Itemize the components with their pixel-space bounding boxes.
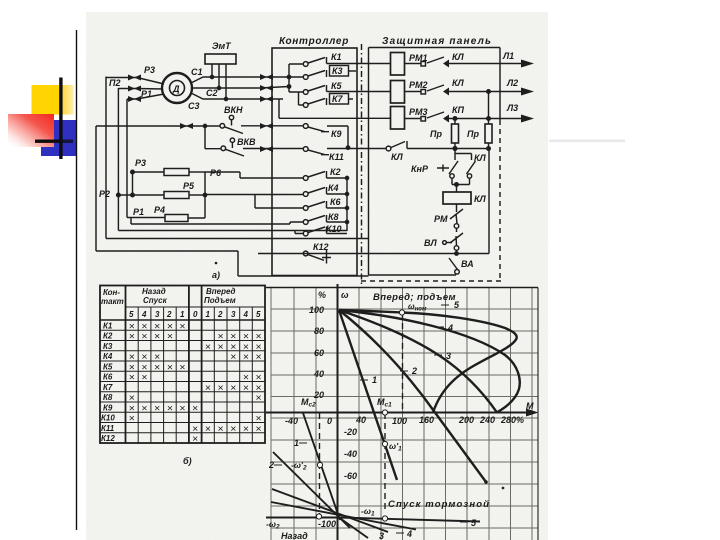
contact square RM2	[421, 90, 426, 95]
wire RM3 out / line L3	[405, 112, 523, 119]
point circle omega1prime	[382, 441, 387, 446]
wire K7 from bus	[299, 104, 304, 106]
svg-text:Назад: Назад	[142, 287, 166, 296]
svg-text:3: 3	[231, 310, 236, 319]
tick 5	[441, 304, 449, 306]
graph grid verticals	[271, 288, 532, 540]
svg-text:0: 0	[193, 310, 198, 319]
svg-text:Вперед: Вперед	[206, 287, 236, 296]
svg-text:×: ×	[141, 403, 147, 415]
decor black horizontal bar	[35, 140, 73, 143]
svg-text:КЛ: КЛ	[391, 152, 404, 162]
join wire	[452, 184, 470, 186]
svg-text:80: 80	[314, 326, 324, 336]
contact VL	[450, 229, 463, 244]
svg-text:-60: -60	[344, 471, 357, 481]
rail vertical x96	[95, 126, 97, 251]
panel right border	[499, 48, 501, 121]
coil KL box	[456, 185, 458, 193]
node L2 fuse tap	[487, 90, 491, 94]
wire VKN to controller	[241, 125, 303, 127]
svg-text:×: ×	[154, 331, 160, 343]
dash-dot divider	[361, 44, 363, 285]
line arrow L1	[521, 60, 534, 68]
svg-text:×: ×	[230, 423, 236, 435]
svg-text:Подъем: Подъем	[204, 296, 236, 305]
svg-text:20: 20	[313, 390, 324, 400]
motor inner circle	[170, 81, 185, 96]
svg-text:К7: К7	[332, 94, 344, 104]
label box K3	[330, 66, 349, 77]
contact square RM3	[421, 117, 426, 122]
bus junction dots	[287, 75, 290, 78]
bottom wire to VA	[369, 274, 457, 276]
collector bus K2-K10	[346, 178, 348, 231]
rail y251 bottom	[96, 250, 238, 252]
svg-text:К4: К4	[103, 352, 113, 361]
svg-text:К3: К3	[103, 342, 113, 351]
svg-text:Спуск: Спуск	[143, 296, 168, 305]
M axis	[266, 412, 533, 414]
button KnR bar	[437, 165, 449, 172]
wire motor left lower	[127, 94, 164, 99]
motor M (Д) outer circle	[162, 73, 192, 103]
svg-text:×: ×	[141, 372, 147, 384]
svg-text:×: ×	[192, 403, 198, 415]
svg-text:КП: КП	[452, 105, 465, 115]
wire C3 phase	[191, 93, 283, 99]
node VKV branch dot	[203, 124, 206, 127]
connector arrows P3/P1	[128, 75, 141, 103]
rail step down	[238, 251, 369, 276]
svg-text:4: 4	[447, 323, 453, 333]
svg-text:Р3: Р3	[144, 65, 155, 75]
svg-text:Пр: Пр	[467, 129, 479, 139]
faint scan artifact line	[549, 140, 625, 143]
point circle Mc1 axis	[382, 410, 387, 415]
svg-text:ВА: ВА	[461, 259, 474, 269]
svg-text:×: ×	[256, 392, 262, 404]
lower fan extra line	[339, 518, 368, 539]
svg-text:К9: К9	[331, 129, 342, 139]
stray speck	[502, 487, 505, 490]
lower tick 2	[274, 464, 282, 466]
table row line below numbers	[100, 319, 265, 321]
contact K4	[303, 192, 308, 197]
svg-text:Назад: Назад	[281, 531, 308, 540]
svg-text:С1: С1	[191, 67, 203, 77]
svg-text:×: ×	[129, 372, 135, 384]
svg-text:М: М	[526, 401, 534, 411]
svg-text:%: %	[318, 290, 326, 300]
svg-text:2: 2	[166, 310, 172, 319]
decor black vertical bar	[59, 78, 62, 160]
svg-text:РМ: РМ	[434, 214, 448, 224]
svg-text:200: 200	[458, 415, 474, 425]
vertical resistor bus x205	[204, 172, 206, 218]
curve 4	[339, 310, 520, 412]
relay contact node P3	[131, 170, 135, 174]
lower fan line 5	[339, 518, 480, 522]
label box K7	[330, 94, 349, 105]
node dot R5 out	[203, 193, 206, 196]
line arrow L3	[521, 115, 534, 123]
svg-text:×: ×	[192, 433, 198, 445]
svg-text:Спуск тормозной: Спуск тормозной	[388, 499, 490, 510]
svg-text:160: 160	[419, 415, 434, 425]
decor blue tab	[41, 147, 54, 156]
svg-text:100: 100	[309, 305, 324, 315]
point circle minus100	[316, 514, 321, 519]
wire K6 feed	[255, 195, 303, 208]
svg-text:К8: К8	[103, 393, 113, 402]
wire C1 phase	[191, 77, 289, 83]
node dots fuse line	[453, 147, 457, 151]
svg-text:-100: -100	[318, 519, 336, 529]
line arrow L2	[521, 88, 534, 96]
svg-text:Д: Д	[172, 84, 180, 94]
svg-text:Кон-: Кон-	[103, 288, 120, 297]
M axis arrowhead	[526, 409, 539, 417]
svg-text:К6: К6	[103, 373, 113, 382]
scan paper background	[86, 12, 548, 540]
svg-text:Р5: Р5	[183, 181, 195, 191]
svg-text:×: ×	[141, 331, 147, 343]
lower fan line 3	[272, 489, 388, 532]
rail y239	[106, 238, 369, 240]
svg-text:К2: К2	[103, 332, 113, 341]
svg-text:К5: К5	[103, 363, 113, 372]
svg-text:К10: К10	[326, 224, 342, 234]
node L3 fuse taps	[453, 117, 457, 121]
svg-text:К1: К1	[103, 322, 113, 331]
arrowhead KL3	[443, 115, 449, 123]
svg-text:×: ×	[205, 423, 211, 435]
brake ЭмТ box	[205, 54, 236, 64]
svg-text:ЭмТ: ЭмТ	[212, 41, 232, 51]
svg-text:Р6: Р6	[210, 168, 222, 178]
svg-text:П2: П2	[109, 78, 120, 88]
svg-text:2: 2	[217, 310, 223, 319]
svg-text:5: 5	[256, 310, 261, 319]
svg-text:×: ×	[243, 382, 249, 394]
svg-text:1: 1	[206, 310, 211, 319]
contact K9	[303, 124, 308, 129]
svg-text:×: ×	[230, 351, 236, 363]
svg-text:а): а)	[212, 270, 220, 280]
slide divider vertical line	[76, 30, 77, 530]
svg-text:-40: -40	[285, 416, 298, 426]
svg-text:100: 100	[392, 416, 407, 426]
decor yellow square	[32, 85, 74, 115]
controller box	[272, 48, 357, 276]
svg-text:ω: ω	[341, 290, 349, 300]
svg-text:Л1: Л1	[502, 51, 514, 61]
svg-text:КЛ: КЛ	[452, 78, 465, 88]
contact K1	[303, 62, 308, 67]
svg-text:К11: К11	[329, 152, 344, 162]
rail y231	[118, 230, 347, 232]
resistor R5	[164, 192, 189, 199]
tick 3	[434, 354, 442, 356]
tick 1	[360, 379, 368, 381]
resistor R6	[164, 169, 189, 176]
lower tick 5	[460, 521, 468, 523]
svg-text:К11: К11	[101, 424, 115, 433]
phase bus x289	[288, 64, 290, 92]
contact K5	[303, 90, 308, 95]
contact K7	[303, 103, 308, 108]
svg-text:К4: К4	[328, 183, 339, 193]
contact RM break	[450, 204, 463, 219]
svg-text:Контроллер: Контроллер	[279, 36, 349, 47]
svg-text:3: 3	[379, 531, 384, 540]
rail vertical x118	[117, 88, 119, 231]
svg-text:×: ×	[167, 362, 173, 374]
relay RM1 box	[391, 53, 405, 76]
table header split line	[126, 306, 266, 308]
contact square RM1	[421, 62, 426, 67]
protective panel top border	[369, 47, 501, 49]
wire P2 line	[118, 194, 164, 196]
arrowhead KL1	[443, 60, 449, 68]
limit switch VKV	[230, 138, 234, 142]
svg-text:4: 4	[243, 310, 249, 319]
svg-text:К12: К12	[313, 242, 329, 252]
switch VA	[449, 258, 458, 270]
phase bus x298	[298, 92, 300, 106]
table row lines	[100, 330, 265, 433]
svg-text:С2: С2	[206, 88, 218, 98]
wire C3 to RM3	[279, 99, 391, 118]
svg-text:240: 240	[479, 415, 495, 425]
svg-text:-20: -20	[344, 427, 357, 437]
svg-text:×: ×	[256, 423, 262, 435]
contact K10	[303, 231, 308, 236]
decor red gradient square	[8, 114, 54, 147]
svg-text:3: 3	[446, 351, 451, 361]
svg-text:×: ×	[256, 351, 262, 363]
lower tick 4	[396, 532, 404, 534]
svg-text:3: 3	[155, 310, 160, 319]
svg-text:×: ×	[167, 331, 173, 343]
relay RM2 box	[391, 81, 405, 104]
graph grid horizontals	[271, 309, 538, 528]
omega axis	[337, 284, 339, 540]
svg-text:КЛ: КЛ	[452, 52, 465, 62]
wire motor left middle	[118, 88, 163, 91]
dashed omega-nom vertical	[402, 313, 404, 412]
contact K3	[303, 75, 308, 80]
minus100 line	[266, 517, 339, 519]
arrowhead KL2	[443, 88, 449, 96]
svg-text:×: ×	[179, 403, 185, 415]
svg-text:×: ×	[243, 351, 249, 363]
node C3 junction dot	[224, 97, 227, 100]
svg-text:КЛ: КЛ	[474, 194, 487, 204]
svg-text:×: ×	[218, 423, 224, 435]
contact K11	[303, 147, 308, 152]
decor blue square	[54, 120, 77, 156]
svg-text:ВКВ: ВКВ	[237, 137, 256, 147]
svg-text:Л3: Л3	[506, 103, 518, 113]
wire K12 line long	[258, 253, 489, 255]
svg-text:РМ1: РМ1	[409, 53, 428, 63]
relay RM3 box	[391, 107, 405, 130]
wire P1 line	[127, 217, 165, 219]
point circle omega-nom	[399, 310, 404, 315]
svg-text:5: 5	[129, 310, 134, 319]
lower tick 1	[299, 442, 307, 444]
wire to resistor R6	[133, 171, 165, 173]
svg-text:К8: К8	[328, 212, 339, 222]
wire R4 right	[188, 217, 205, 219]
graph right border	[537, 288, 539, 540]
fuse Pr2	[488, 92, 490, 125]
wire RM1 out / line L1	[405, 57, 523, 64]
svg-text:-40: -40	[344, 449, 357, 459]
svg-text:2: 2	[268, 460, 274, 470]
svg-text:Р1: Р1	[141, 89, 152, 99]
wire C2 phase	[193, 87, 290, 89]
svg-text:×: ×	[218, 382, 224, 394]
svg-text:2: 2	[411, 366, 417, 376]
contact K8	[303, 220, 308, 225]
wire K10 feed	[295, 231, 303, 234]
svg-text:40: 40	[313, 369, 324, 379]
svg-text:×: ×	[167, 403, 173, 415]
svg-text:×: ×	[205, 382, 211, 394]
svg-text:КЛ: КЛ	[474, 153, 487, 163]
svg-text:1: 1	[372, 375, 377, 385]
wire P3 node down	[132, 172, 134, 195]
brake coil leads	[212, 64, 226, 99]
svg-text:×: ×	[205, 341, 211, 353]
resistor R4	[165, 215, 188, 222]
svg-text:×: ×	[129, 331, 135, 343]
node on long wire	[455, 252, 458, 255]
point circle omega2prime	[317, 462, 322, 467]
svg-text:К7: К7	[103, 383, 113, 392]
curve 2 end dot	[484, 480, 488, 484]
parallel contact left	[449, 154, 458, 175]
rail vertical x127	[126, 99, 128, 218]
rail vertical x106	[105, 77, 107, 239]
svg-text:К12: К12	[101, 434, 115, 443]
svg-text:К10: К10	[101, 414, 115, 423]
svg-text:С3: С3	[188, 101, 200, 111]
svg-text:Р4: Р4	[154, 205, 165, 215]
lower fan line 1	[303, 413, 340, 520]
svg-text:×: ×	[230, 382, 236, 394]
svg-text:×: ×	[179, 362, 185, 374]
contact K6	[303, 206, 308, 211]
wire RM2 out / line L2	[405, 85, 523, 92]
vertical x131	[130, 218, 132, 224]
lower fan line 2	[273, 452, 350, 528]
wire K4 feed	[205, 194, 303, 196]
panel left border	[368, 48, 370, 276]
svg-text:Р3: Р3	[135, 158, 146, 168]
dashed Mc2 vertical	[319, 413, 321, 516]
control branch node	[453, 147, 457, 151]
right branch vertical	[488, 149, 490, 254]
svg-text:РМ3: РМ3	[409, 107, 428, 117]
svg-text:Пр: Пр	[430, 129, 442, 139]
svg-text:К6: К6	[330, 197, 342, 207]
table outer frame	[100, 286, 265, 444]
svg-text:Р1: Р1	[133, 207, 144, 217]
contact K12	[303, 251, 308, 256]
svg-text:б): б)	[183, 456, 192, 466]
svg-text:Р2: Р2	[99, 189, 110, 199]
panel bottom dashed	[361, 280, 502, 282]
tick 4	[436, 326, 444, 328]
contact KL aux	[386, 146, 391, 151]
point circle minus-omega1	[382, 516, 387, 521]
svg-text:1: 1	[180, 310, 185, 319]
svg-text:К9: К9	[103, 404, 113, 413]
svg-text:КнР: КнР	[411, 164, 429, 174]
wire VKN line	[96, 125, 220, 127]
node C1 junction dot	[210, 75, 213, 78]
svg-text:40: 40	[355, 415, 366, 425]
curve 1	[339, 310, 397, 480]
limit switch VKN	[229, 115, 233, 119]
wire R6 right	[189, 171, 205, 173]
svg-text:280%: 280%	[500, 415, 524, 425]
contact K2	[303, 176, 308, 181]
stray mark	[215, 262, 218, 265]
rail y224 to K8	[131, 222, 303, 224]
svg-text:60: 60	[314, 348, 324, 358]
svg-text:Л2: Л2	[506, 78, 518, 88]
lower fan line 4	[271, 502, 416, 530]
svg-text:×: ×	[218, 341, 224, 353]
svg-text:К2: К2	[330, 167, 341, 177]
svg-text:4: 4	[141, 310, 147, 319]
tick 2	[400, 370, 408, 372]
svg-text:×: ×	[129, 413, 135, 425]
node C2 junction dot	[217, 86, 220, 89]
wires bus to contacts	[289, 64, 303, 92]
connector arrows at controller input	[180, 74, 273, 152]
wire R5 right	[189, 194, 205, 196]
svg-text:×: ×	[243, 423, 249, 435]
svg-text:0: 0	[327, 416, 332, 426]
node dot P2 line	[131, 193, 135, 197]
parallel contact right KL	[467, 154, 476, 175]
svg-text:ВЛ: ВЛ	[424, 238, 437, 248]
svg-text:×: ×	[179, 321, 185, 333]
table column lines	[138, 307, 252, 443]
svg-text:К3: К3	[332, 66, 343, 76]
dashed Mc1 vertical below	[384, 413, 386, 511]
svg-text:такт: такт	[101, 297, 124, 306]
wire motor left upper	[106, 78, 164, 85]
svg-text:×: ×	[154, 403, 160, 415]
svg-text:×: ×	[154, 362, 160, 374]
wire K2 feed	[205, 172, 303, 178]
fuse Pr1	[454, 119, 456, 125]
svg-text:ВКН: ВКН	[224, 105, 243, 115]
svg-text:4: 4	[406, 529, 412, 539]
wire VKV to controller	[243, 148, 303, 150]
curve 2	[339, 310, 486, 482]
graph top border	[266, 287, 538, 289]
curve 5	[339, 310, 517, 413]
curve 3	[339, 310, 497, 413]
